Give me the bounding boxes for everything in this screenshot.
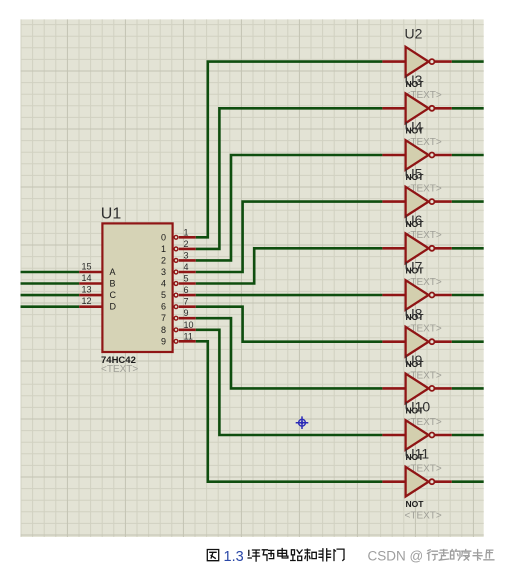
- NOT gate U5: [382, 187, 451, 217]
- pin 9 of U1 (output 7): [179, 317, 196, 320]
- svg-text:<TEXT>: <TEXT>: [405, 510, 442, 521]
- wire input D: [21, 305, 80, 308]
- pin 12 (D) of U1: [79, 305, 102, 308]
- svg-text:6: 6: [161, 302, 166, 312]
- NOT gate U9: [382, 374, 451, 404]
- wire output of U3: [452, 107, 484, 110]
- svg-text:A: A: [110, 267, 116, 277]
- svg-text:9: 9: [184, 308, 189, 318]
- svg-text:3: 3: [184, 250, 189, 260]
- wire output of U6: [452, 247, 484, 250]
- svg-text:U10: U10: [405, 399, 431, 415]
- svg-text:U11: U11: [405, 445, 430, 461]
- pin 10 of U1 (output 8): [179, 328, 196, 331]
- svg-text:B: B: [110, 279, 116, 289]
- svg-text:U1: U1: [101, 206, 122, 223]
- NOT gate U10: [382, 420, 451, 450]
- pin bubble output 6: [174, 305, 178, 309]
- wire output of U9: [452, 387, 484, 390]
- svg-text:12: 12: [81, 296, 91, 306]
- wire output of U4: [452, 154, 484, 157]
- svg-text:2: 2: [184, 239, 189, 249]
- NOT gate U11: [382, 467, 451, 497]
- pin bubble output 0: [174, 235, 178, 239]
- svg-text:0: 0: [161, 232, 166, 242]
- svg-text:4: 4: [161, 279, 166, 289]
- pin bubble output 8: [174, 328, 178, 332]
- svg-text:6: 6: [184, 285, 189, 295]
- wire output of U11: [452, 480, 484, 483]
- pin bubble output 7: [174, 316, 178, 320]
- svg-text:1.3: 1.3: [224, 549, 244, 565]
- svg-text:U7: U7: [405, 259, 423, 275]
- svg-text:7: 7: [184, 297, 189, 307]
- pin bubble output 2: [174, 259, 178, 263]
- wire pin 6 to gate U7 (straight): [196, 294, 383, 297]
- svg-text:U4: U4: [405, 119, 423, 135]
- pin 11 of U1 (output 9): [179, 340, 196, 343]
- wire pin 3 to gate U4: [196, 155, 383, 260]
- wire pin 10 to gate U10: [196, 330, 383, 435]
- caption: 图 1.3 译码电路和非门: [207, 550, 218, 561]
- svg-text:U2: U2: [405, 25, 423, 41]
- pin 13 (C) of U1: [79, 294, 102, 297]
- wire pin 4 to gate U5: [196, 202, 383, 272]
- chip U1 74HC42 body: [102, 223, 172, 352]
- svg-text:4: 4: [184, 262, 189, 272]
- NOT gate U3: [382, 94, 451, 124]
- wire output of U2: [452, 60, 484, 63]
- svg-text:10: 10: [184, 320, 194, 330]
- pin 1 of U1 (output 0): [179, 236, 196, 239]
- svg-text:U3: U3: [405, 72, 423, 88]
- svg-text:2: 2: [161, 255, 166, 265]
- svg-text:C: C: [110, 290, 117, 300]
- svg-text:<TEXT>: <TEXT>: [101, 364, 138, 375]
- wire pin 1 to gate U2: [196, 62, 383, 238]
- svg-text:U9: U9: [405, 352, 423, 368]
- svg-text:1: 1: [161, 244, 166, 254]
- pin bubble output 3: [174, 270, 178, 274]
- NOT gate U2: [382, 47, 451, 77]
- svg-text:NOT: NOT: [406, 499, 425, 509]
- svg-text:3: 3: [161, 267, 166, 277]
- NOT gate U4: [382, 140, 451, 170]
- wire pin 5 to gate U6: [196, 248, 383, 283]
- pin bubble output 5: [174, 293, 178, 297]
- pin 15 (A) of U1: [79, 271, 102, 274]
- svg-text:1: 1: [184, 227, 189, 237]
- pin 14 (B) of U1: [79, 282, 102, 285]
- pin bubble output 9: [174, 339, 178, 343]
- pin 4 of U1 (output 3): [179, 271, 196, 274]
- svg-text:13: 13: [81, 285, 91, 295]
- wire output of U5: [452, 200, 484, 203]
- svg-text:15: 15: [81, 261, 91, 271]
- wire input C: [21, 294, 80, 297]
- wire pin 11 to gate U11: [196, 341, 383, 481]
- wire output of U7: [452, 294, 484, 297]
- wire pin 9 to gate U9: [196, 318, 383, 388]
- svg-text:8: 8: [161, 325, 166, 335]
- pin 5 of U1 (output 4): [179, 282, 196, 285]
- pin bubble output 1: [174, 247, 178, 251]
- svg-text:U5: U5: [405, 165, 423, 181]
- wire pin 2 to gate U3: [196, 108, 383, 249]
- svg-text:9: 9: [161, 336, 166, 346]
- wire input A: [21, 271, 80, 274]
- NOT gate U8: [382, 327, 451, 357]
- NOT gate U7: [382, 280, 451, 310]
- pin 6 of U1 (output 5): [179, 294, 196, 297]
- svg-text:D: D: [110, 302, 117, 312]
- pin 3 of U1 (output 2): [179, 259, 196, 262]
- svg-text:5: 5: [161, 290, 166, 300]
- svg-text:U6: U6: [405, 212, 423, 228]
- pin 7 of U1 (output 6): [179, 305, 196, 308]
- wire input B: [21, 282, 80, 285]
- wire output of U8: [452, 340, 484, 343]
- svg-text:11: 11: [184, 331, 193, 341]
- svg-text:5: 5: [184, 274, 189, 284]
- pin bubble output 4: [174, 282, 178, 286]
- pin 2 of U1 (output 1): [179, 248, 196, 251]
- svg-text:7: 7: [161, 313, 166, 323]
- wire pin 7 to gate U8: [196, 307, 383, 342]
- svg-text:CSDN @: CSDN @: [368, 548, 424, 563]
- wire output of U10: [452, 434, 484, 437]
- svg-text:U8: U8: [405, 305, 423, 321]
- NOT gate U6: [382, 234, 451, 264]
- svg-text:14: 14: [81, 273, 91, 283]
- origin marker: [296, 416, 309, 429]
